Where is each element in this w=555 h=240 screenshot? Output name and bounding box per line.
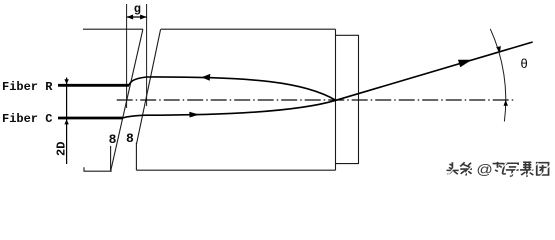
g-dimension extension line right — [146, 4, 148, 106]
char yu — [506, 163, 519, 176]
svg-text:2D: 2D — [54, 142, 68, 156]
optical axis dash-dot centerline — [117, 99, 515, 101]
GRIN lens bottom edge — [136, 169, 335, 171]
fiber block top edge — [83, 28, 143, 30]
upper ray arrowhead (pointing left) — [202, 74, 211, 81]
fiber R pigtail (thick) — [58, 84, 129, 87]
svg-text:@: @ — [476, 162, 492, 178]
input ray inside lens (lower) — [146, 100, 336, 115]
return ray inside lens (upper) — [147, 77, 336, 100]
svg-text:θ: θ — [521, 56, 528, 71]
fiber block angled end face (8 deg) — [111, 29, 143, 171]
g-dimension right arrowhead — [140, 15, 147, 20]
GRIN lens top edge — [161, 28, 336, 30]
svg-text:8: 8 — [126, 131, 134, 146]
GRIN lens right edge — [335, 29, 337, 170]
GRIN lens lower-left vertical edge — [135, 143, 137, 171]
theta angle dimension arc — [490, 29, 505, 122]
GRIN lens angled left face (8 deg) — [136, 29, 160, 144]
arc arrowhead at axis (pointing up) — [504, 100, 508, 106]
g-dimension arrow line — [127, 16, 147, 18]
2D down arrowhead at fiber R — [64, 79, 68, 84]
input ray bend at fiber C face — [123, 115, 147, 118]
lower ray arrowhead (pointing right) — [189, 112, 199, 118]
char fei — [493, 162, 506, 174]
return ray bend at fiber R face — [129, 77, 147, 85]
sleeve tube rectangle — [336, 35, 359, 163]
arc arrowhead at ray (pointing down along arc) — [496, 46, 501, 53]
svg-text:Fiber C: Fiber C — [2, 112, 52, 126]
watermark 头条@飞宇集团 (hand-drawn strokes) — [446, 161, 550, 178]
fiber block bottom edge — [84, 167, 112, 171]
char tou — [446, 162, 458, 174]
svg-text:8: 8 — [109, 132, 117, 147]
output collimated ray — [336, 42, 533, 100]
svg-text:g: g — [134, 2, 141, 16]
output ray arrowhead — [458, 60, 472, 68]
g-dimension extension line left — [126, 4, 128, 108]
char tuan — [537, 163, 549, 175]
char ji — [520, 161, 533, 176]
2D up arrowhead at fiber C — [64, 119, 68, 124]
watermark white slashes — [448, 162, 550, 176]
g-dimension left arrowhead — [127, 15, 134, 20]
angle reference vertical (left) — [110, 146, 112, 171]
2D dimension line — [66, 78, 68, 165]
svg-text:Fiber R: Fiber R — [2, 80, 53, 94]
char tiao — [460, 162, 472, 175]
fiber C pigtail (thick) — [58, 117, 123, 120]
